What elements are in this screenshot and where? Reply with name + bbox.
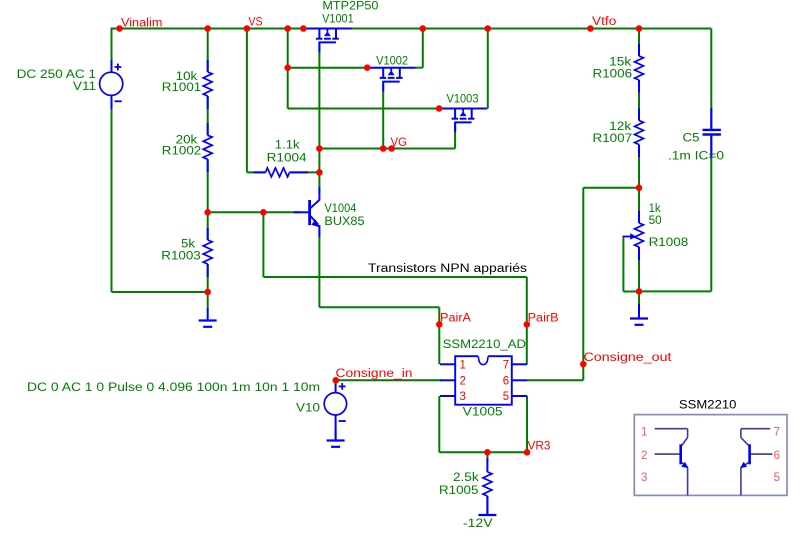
svg-text:Transistors NPN appariés: Transistors NPN appariés <box>368 263 527 275</box>
svg-text:R1004: R1004 <box>267 152 308 164</box>
svg-text:R1008: R1008 <box>649 237 689 249</box>
svg-text:Vtfo: Vtfo <box>592 16 616 28</box>
svg-text:R1002: R1002 <box>162 145 201 157</box>
svg-text:.1m IC=0: .1m IC=0 <box>668 151 724 163</box>
svg-text:Consigne_out: Consigne_out <box>584 352 673 364</box>
svg-text:7: 7 <box>503 360 509 372</box>
svg-text:5: 5 <box>503 391 509 403</box>
svg-text:V1003: V1003 <box>447 93 479 105</box>
svg-text:SSM2210_AD: SSM2210_AD <box>443 339 526 351</box>
svg-text:2.5k: 2.5k <box>453 472 479 484</box>
svg-text:DC 0 AC 1 0 Pulse 0 4.096 100n: DC 0 AC 1 0 Pulse 0 4.096 100n 1m 10n 1 … <box>27 382 320 394</box>
svg-text:2: 2 <box>641 450 647 462</box>
svg-text:1.1k: 1.1k <box>275 139 300 151</box>
svg-text:V1002: V1002 <box>376 55 408 67</box>
svg-text:V1001: V1001 <box>322 13 354 25</box>
svg-text:V11: V11 <box>73 81 96 93</box>
svg-text:BUX85: BUX85 <box>324 216 364 228</box>
svg-text:2: 2 <box>460 375 466 387</box>
svg-text:6: 6 <box>503 375 509 387</box>
svg-text:5k: 5k <box>181 239 195 251</box>
svg-text:50: 50 <box>649 215 662 227</box>
svg-text:V1005: V1005 <box>463 407 503 419</box>
svg-text:C5: C5 <box>683 133 700 145</box>
svg-text:Consigne_in: Consigne_in <box>336 368 413 380</box>
svg-text:3: 3 <box>641 472 647 484</box>
svg-text:MTP2P50: MTP2P50 <box>322 0 378 12</box>
svg-text:R1007: R1007 <box>593 133 633 145</box>
svg-text:15k: 15k <box>609 56 631 68</box>
svg-text:R1001: R1001 <box>162 82 201 94</box>
svg-text:PairB: PairB <box>528 313 559 325</box>
svg-text:7: 7 <box>774 426 780 438</box>
svg-text:V10: V10 <box>296 403 320 415</box>
svg-text:-12V: -12V <box>463 518 493 530</box>
svg-text:1: 1 <box>641 426 647 438</box>
svg-text:6: 6 <box>774 450 780 462</box>
svg-text:DC 250 AC 1: DC 250 AC 1 <box>17 69 96 81</box>
svg-text:VR3: VR3 <box>528 440 551 452</box>
svg-text:V1004: V1004 <box>324 203 357 215</box>
svg-text:PairA: PairA <box>440 313 471 325</box>
svg-text:5: 5 <box>774 472 780 484</box>
svg-text:VG: VG <box>391 137 408 149</box>
svg-text:R1006: R1006 <box>593 68 633 80</box>
svg-text:VS: VS <box>249 16 263 28</box>
svg-text:R1005: R1005 <box>439 485 478 497</box>
svg-text:1k: 1k <box>649 203 661 215</box>
svg-text:SSM2210: SSM2210 <box>679 400 737 412</box>
svg-text:1: 1 <box>460 360 466 372</box>
svg-text:Vinalim: Vinalim <box>121 18 162 30</box>
svg-text:3: 3 <box>460 391 466 403</box>
svg-text:R1003: R1003 <box>161 251 200 263</box>
svg-text:12k: 12k <box>609 121 631 133</box>
